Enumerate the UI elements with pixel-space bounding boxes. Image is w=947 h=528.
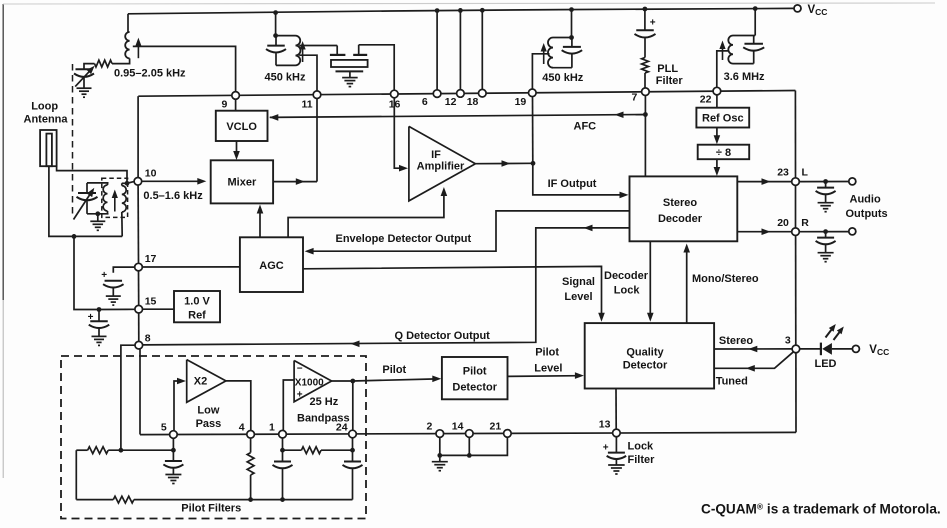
svg-text:Pilot: Pilot: [463, 365, 487, 377]
junction rail-tank2: [569, 7, 574, 12]
wire rail to pin 18: [481, 10, 483, 89]
svg-text:+: +: [603, 443, 609, 454]
svg-text:−: −: [297, 364, 303, 375]
svg-text:IF Output: IF Output: [548, 178, 597, 190]
svg-text:Pass: Pass: [196, 418, 222, 430]
pin 1: [279, 430, 287, 438]
junction pin1 row4: [280, 448, 285, 453]
variable capacitor C2: [74, 183, 98, 220]
wire pin 9 to VCLO: [235, 99, 237, 110]
svg-text:VCLO: VCLO: [226, 121, 257, 133]
wire pin 24 down: [352, 438, 354, 462]
wire pin 17-15 vertical: [138, 271, 140, 305]
capacitor tank3: [743, 36, 764, 64]
pin 21: [504, 430, 512, 438]
block Ref Osc: [696, 108, 749, 128]
wire PLL to pin 7: [644, 73, 646, 88]
wire pin 15 line: [99, 308, 135, 310]
op-amp IF Amplifier: [409, 126, 476, 200]
wire pin 1 to X1000 input: [283, 380, 294, 430]
pin 14: [466, 430, 474, 438]
wire pin 22 to Ref Osc: [716, 95, 718, 108]
pin 9: [232, 92, 240, 100]
pin 12: [457, 90, 465, 98]
LED light arrows: [826, 324, 844, 340]
svg-text:Envelope Detector Output: Envelope Detector Output: [336, 233, 472, 245]
svg-text:21: 21: [490, 421, 502, 433]
junction antenna return: [72, 234, 77, 239]
wire pilot level: [508, 372, 584, 379]
wire tank1 tap to pin 11: [299, 55, 317, 91]
LED D1: [821, 343, 832, 356]
svg-text:+: +: [101, 270, 107, 281]
svg-text:7: 7: [632, 92, 638, 104]
svg-text:11: 11: [302, 99, 313, 111]
wire bottom rail: [140, 432, 796, 434]
wire R1 to C1: [84, 64, 95, 70]
svg-text:19: 19: [515, 96, 527, 108]
pin 22: [713, 87, 721, 95]
wire pin 23 to pin 20: [795, 186, 797, 228]
inductor tank1: [276, 36, 306, 66]
wire rail to L1: [127, 14, 129, 32]
svg-text:Stereo: Stereo: [663, 197, 698, 209]
svg-text:Mixer: Mixer: [228, 177, 257, 189]
svg-text:Loop: Loop: [31, 101, 58, 113]
svg-text:13: 13: [599, 419, 611, 431]
wire tank2 tap to pin 19: [532, 54, 549, 89]
svg-text:Ref: Ref: [188, 310, 206, 322]
pin 10: [134, 178, 142, 186]
dashed box Pilot Filters: [61, 356, 366, 519]
loop antenna: [40, 130, 57, 166]
pin 20: [792, 228, 800, 236]
wire bus corner to pin 10: [137, 96, 139, 177]
svg-text:X1000: X1000: [295, 378, 324, 389]
wire VCLO to mixer: [233, 141, 240, 160]
svg-text:Quality: Quality: [626, 346, 664, 358]
svg-text:5: 5: [161, 421, 167, 433]
svg-text:6: 6: [422, 96, 428, 108]
wire AGC to mixer: [257, 205, 264, 238]
wire VCC rail: [128, 8, 794, 13]
wire mixer output to pin 11: [273, 178, 317, 185]
svg-text:PLL: PLL: [657, 63, 678, 75]
svg-text:8: 8: [145, 333, 151, 345]
wire pin 15-8 vertical: [138, 313, 140, 341]
pin 15: [135, 305, 143, 313]
junction IF output: [531, 161, 536, 166]
svg-text:3: 3: [785, 334, 791, 346]
pin 7: [642, 88, 650, 96]
capacitor tank2: [562, 38, 583, 68]
junction rail-pin18: [480, 8, 485, 13]
junction tank1 top: [273, 33, 278, 38]
svg-text:18: 18: [467, 96, 479, 108]
svg-text:R: R: [801, 217, 809, 229]
transformer T1: [102, 178, 128, 217]
capacitor pin 1: [273, 462, 293, 500]
svg-text:Detector: Detector: [452, 381, 497, 393]
svg-text:L: L: [802, 167, 809, 179]
junction rail-pin12: [458, 8, 463, 13]
svg-text:20: 20: [777, 217, 789, 229]
wire bus to pin 23: [794, 91, 796, 178]
svg-text:Lock: Lock: [614, 284, 641, 296]
variable capacitor C1: [74, 66, 95, 88]
wire pin 10 to mixer: [142, 178, 206, 185]
wire pin 8 stub to filter divider: [121, 345, 135, 450]
junction tank ground: [95, 211, 100, 216]
junction rail-PLL: [643, 7, 648, 12]
svg-text:Filter: Filter: [628, 454, 656, 466]
svg-text:Q Detector Output: Q Detector Output: [395, 330, 491, 342]
junction audio L cap: [823, 179, 828, 184]
block Pilot Detector: [442, 357, 508, 399]
ground C4: [92, 335, 107, 337]
wire AFC: [269, 111, 645, 120]
svg-text:10: 10: [145, 167, 157, 179]
resistor PLL: [642, 58, 649, 74]
wire X2 output to pin 4: [226, 381, 251, 430]
svg-text:2: 2: [427, 421, 433, 433]
audio output terminal L: [849, 178, 856, 185]
wire pin 19 down: [532, 97, 534, 164]
junction rail-pin6: [435, 8, 440, 13]
svg-text:Lock: Lock: [628, 441, 655, 453]
svg-text:X2: X2: [194, 375, 207, 387]
svg-text:14: 14: [452, 421, 464, 433]
inductor L1 (0.95-2.05 kHz): [112, 32, 142, 64]
capacitor PLL (electrolytic): [635, 17, 656, 57]
wire X1000 output: [332, 380, 353, 382]
ground lock filter: [608, 464, 625, 466]
lock filter capacitor: [603, 437, 626, 465]
pin 13: [613, 429, 621, 437]
wire decoder lock: [647, 241, 654, 321]
svg-text:Filter: Filter: [656, 75, 684, 87]
wire pin 17 to AGC: [143, 266, 240, 268]
junction pin 2 gnd: [437, 453, 442, 458]
pin 3: [792, 345, 800, 353]
wire pin 23 to audio out L: [800, 181, 849, 183]
svg-text:+: +: [297, 390, 303, 401]
wire pin 20 to audio out R: [800, 231, 849, 233]
svg-text:1.0 V: 1.0 V: [184, 296, 210, 308]
wire X1000 to pilot detector: [353, 376, 442, 383]
capacitor C3 (electrolytic): [101, 270, 123, 296]
wire quality detector to pin 13: [615, 389, 617, 429]
svg-text:4: 4: [239, 421, 245, 433]
pin 2: [436, 430, 444, 438]
svg-text:IF: IF: [431, 149, 441, 161]
wire pin 8 to bottom rail: [139, 349, 141, 434]
wire stereo decoder to pin 23: [737, 178, 791, 185]
wire IF output to stereo decoder: [533, 163, 629, 198]
svg-text:450 kHz: 450 kHz: [542, 72, 583, 84]
wire pin 17 to C3: [113, 267, 134, 273]
wire tank1 tap to resonator: [299, 45, 337, 47]
block divide-by-8: [698, 145, 750, 160]
block Quality Detector: [585, 323, 714, 388]
audio output terminal R: [849, 228, 856, 235]
svg-text:Low: Low: [197, 405, 219, 417]
junction AFC pin7 line: [643, 112, 648, 117]
svg-text:Tuned: Tuned: [716, 375, 748, 387]
block 1.0 V Ref: [174, 291, 220, 322]
wire rail to PLL cap: [644, 9, 646, 30]
svg-text:23: 23: [777, 167, 789, 179]
junction pin4-R4: [248, 497, 253, 502]
svg-text:Detector: Detector: [623, 360, 668, 372]
svg-text:450 kHz: 450 kHz: [265, 71, 306, 83]
pin 5: [170, 431, 178, 439]
svg-text:AFC: AFC: [574, 121, 597, 133]
wire pin 1 down: [282, 438, 284, 461]
wire stereo indicator: [714, 346, 792, 353]
svg-text:Pilot: Pilot: [382, 364, 406, 376]
wire antenna to tank top: [57, 166, 127, 183]
wire rail to tank1: [275, 13, 277, 36]
capacitor pin 5: [165, 460, 182, 462]
wire pin 3 to LED: [800, 348, 821, 350]
svg-text:Antenna: Antenna: [24, 114, 69, 126]
pin 6: [433, 90, 441, 98]
wire IF amp output: [475, 160, 533, 167]
wire pin 2 down: [439, 438, 441, 456]
svg-text:22: 22: [700, 93, 712, 105]
inductor tank2: [541, 38, 572, 68]
op-amp X1000 bandpass: [294, 361, 332, 402]
junction C4: [97, 307, 102, 312]
wire antenna left lead: [49, 166, 122, 236]
junction rail-tank3: [753, 6, 758, 11]
wire pin 16 to IF amp: [394, 98, 408, 172]
ground audio R: [818, 252, 834, 254]
ground C1: [77, 87, 92, 89]
svg-text:12: 12: [445, 96, 457, 108]
wire pin 5 to X2 input: [174, 378, 186, 431]
block AGC: [240, 237, 303, 292]
ground pin 2: [432, 455, 448, 470]
svg-text:Outputs: Outputs: [846, 208, 888, 220]
wire pin 10-17 vertical: [137, 185, 139, 263]
ground audio L: [818, 202, 834, 204]
wire Ref Osc to divider: [714, 128, 721, 145]
junction pin1-R4: [280, 497, 285, 502]
junction divider-R2: [119, 448, 124, 453]
svg-text:Amplifier: Amplifier: [417, 161, 465, 173]
capacitor audio R: [816, 232, 836, 253]
wire rail to pin 6: [436, 11, 438, 90]
wire divider to stereo decoder: [714, 159, 721, 176]
wire return to pin 15 line: [74, 236, 99, 309]
svg-text:Bandpass: Bandpass: [297, 412, 350, 424]
pin 19: [529, 89, 537, 97]
capacitor C4 (electrolytic): [88, 310, 110, 337]
ground resonator: [342, 77, 358, 79]
wire pin 5 down: [172, 439, 174, 462]
wire secondary to pin 10 node: [122, 182, 127, 184]
capacitor audio L: [816, 182, 836, 203]
svg-text:0.5–1.6 kHz: 0.5–1.6 kHz: [143, 190, 203, 202]
wire rail to pin 12: [459, 10, 461, 89]
wire signal level: [303, 266, 605, 321]
ceramic resonator Y1: [330, 45, 368, 77]
svg-text:Mono/Stereo: Mono/Stereo: [692, 273, 759, 285]
pin 8: [135, 341, 143, 349]
wire L1 tap to pin 9: [133, 46, 236, 91]
capacitor pin 24: [343, 462, 363, 500]
ground pin 5 cap: [165, 468, 181, 483]
pin 24: [349, 430, 357, 438]
ground C3: [106, 295, 121, 297]
svg-text:17: 17: [145, 253, 157, 265]
junction pin 10 node: [125, 181, 130, 186]
junction X1000 output: [350, 379, 355, 384]
wire pin 11 down: [316, 99, 318, 182]
junction pin5-R2: [171, 448, 176, 453]
wire mono/stereo: [683, 244, 690, 324]
svg-text:C-QUAM® is a trademark of Moto: C-QUAM® is a trademark of Motorola.: [701, 502, 941, 517]
pin 17: [135, 263, 143, 271]
svg-text:Signal: Signal: [562, 276, 595, 288]
pin 16: [391, 90, 399, 98]
wire pin 3 to bottom rail: [795, 353, 797, 432]
junction pin 14 link: [467, 453, 472, 458]
svg-text:Pilot Filters: Pilot Filters: [181, 502, 241, 514]
wire node to pin 10: [127, 182, 134, 184]
resistor R1: [95, 60, 113, 67]
pin 23: [792, 178, 800, 186]
wire pin 7 to stereo decoder: [644, 96, 646, 177]
junction rail-tank1: [273, 10, 278, 15]
wire resonator to pin 16: [359, 45, 395, 90]
wire Q detector output: [143, 225, 630, 348]
wire rail to tank2: [571, 10, 573, 38]
wire filter R4 row: [76, 496, 352, 503]
svg-text:9: 9: [222, 99, 228, 111]
svg-text:Decoder: Decoder: [658, 213, 703, 225]
mechanical gang link (dashed): [72, 64, 74, 218]
svg-text:Stereo: Stereo: [719, 335, 754, 347]
wire LED to VCC: [832, 348, 853, 350]
block Mixer: [211, 160, 273, 203]
svg-text:15: 15: [145, 296, 157, 308]
wire tank3 tap to pin 22: [717, 51, 729, 87]
wire filter left vertical: [75, 450, 77, 499]
svg-text:3.6 MHz: 3.6 MHz: [724, 71, 765, 83]
svg-text:25 Hz: 25 Hz: [310, 396, 339, 408]
wire pin 15 to 1.0V ref: [143, 308, 174, 310]
VCC terminal (top): [794, 5, 801, 12]
wire tank bottom: [87, 213, 109, 215]
ground antenna tank: [90, 214, 105, 231]
wire filter R2 row: [76, 447, 173, 454]
svg-text:0.95–2.05 kHz: 0.95–2.05 kHz: [114, 68, 186, 80]
svg-text:Ref Osc: Ref Osc: [702, 113, 744, 125]
junction pin24 row4: [350, 448, 355, 453]
wire envelope detector output: [305, 211, 630, 255]
svg-text:+: +: [650, 17, 656, 28]
pin 18: [479, 89, 487, 97]
svg-text:÷ 8: ÷ 8: [716, 147, 731, 159]
wire tuned indicator: [714, 352, 793, 371]
block Stereo Decoder: [630, 176, 738, 241]
resistor pin 4: [247, 438, 254, 499]
svg-text:Audio: Audio: [850, 194, 881, 206]
wire stereo decoder to pin 20: [737, 228, 791, 235]
junction tank2 top: [569, 35, 574, 40]
capacitor tank1: [266, 36, 296, 66]
svg-text:1: 1: [269, 421, 275, 433]
wire pin bus: [138, 91, 795, 97]
svg-text:AGC: AGC: [259, 260, 284, 272]
wire pin 21 link: [440, 437, 508, 455]
wire secondary bottom return: [121, 212, 123, 236]
wire tank top: [87, 182, 109, 184]
pin 11: [313, 91, 321, 99]
resistor pins 1-24 row: [283, 447, 353, 454]
pin 4: [247, 431, 255, 439]
inductor tank3: [719, 36, 755, 64]
wire pin 20 to pin 3: [795, 236, 797, 345]
op-amp X2 low pass: [187, 360, 226, 403]
svg-text:Level: Level: [564, 291, 592, 303]
VCC terminal (right): [852, 345, 859, 352]
svg-text:LED: LED: [815, 358, 837, 370]
svg-text:Pilot: Pilot: [535, 347, 559, 359]
block VCLO: [216, 111, 268, 141]
wire X1000 output to pin 24: [352, 381, 354, 430]
junction audio R cap: [823, 229, 828, 234]
wire AGC to IF amp: [288, 187, 447, 237]
wire rail to tank3: [754, 9, 756, 36]
svg-text:Level: Level: [534, 363, 562, 375]
wire pin 14 down: [468, 438, 470, 456]
svg-text:Decoder: Decoder: [604, 270, 649, 282]
